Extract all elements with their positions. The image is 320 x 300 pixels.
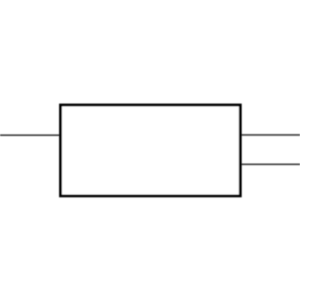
component block U1 (61, 105, 241, 196)
wire (right upper lead) (241, 134, 301, 136)
wire (left input lead) (0, 134, 60, 136)
wire (right lower lead) (241, 163, 301, 165)
